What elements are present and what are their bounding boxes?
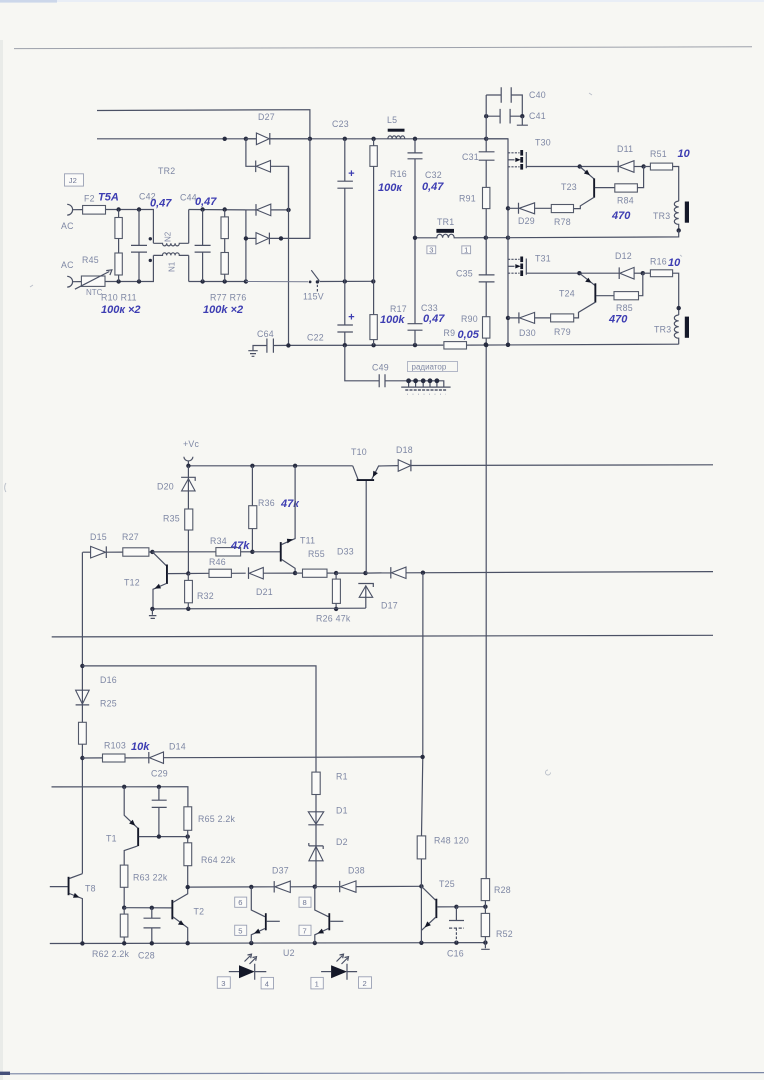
svg-text:C40: C40 [529, 90, 546, 100]
resistor R91 [459, 187, 490, 208]
wire long bus y636 [52, 635, 713, 637]
diode D16 [76, 675, 117, 705]
switch 115V [303, 270, 324, 301]
diode D30 [508, 312, 551, 338]
capacitor C28 [138, 908, 161, 961]
svg-text:0,47: 0,47 [150, 198, 172, 210]
svg-text:R62 2.2k: R62 2.2k [92, 949, 130, 959]
capacitor C31 [462, 152, 495, 162]
capacitor C40 [486, 87, 546, 116]
svg-text:D37: D37 [272, 866, 289, 876]
svg-text:470: 470 [608, 314, 628, 326]
wire top bus y110 [97, 110, 310, 139]
transformer TR3 lower [654, 315, 689, 344]
resistor R28 [481, 879, 511, 907]
svg-text:T10: T10 [351, 447, 367, 457]
svg-text:R36: R36 [258, 498, 275, 508]
junction dots on HV bus [223, 137, 489, 141]
svg-text:0,47: 0,47 [423, 313, 445, 325]
svg-text:R64 22k: R64 22k [201, 855, 236, 865]
wire AC top row [106, 207, 154, 243]
transistor T1 [106, 787, 190, 865]
svg-text:TR1: TR1 [437, 217, 454, 227]
resistor R10 [115, 210, 122, 239]
transistor T2 [124, 887, 204, 943]
wire R55 to D17 node [336, 571, 368, 575]
resistor R36 [249, 466, 275, 552]
svg-text:R34: R34 [210, 536, 227, 546]
svg-text:5: 5 [238, 926, 242, 935]
svg-text:радиатор: радиатор [412, 363, 447, 372]
transistor T11 [280, 466, 315, 576]
resistor R35 [163, 509, 193, 573]
svg-text:100к: 100к [378, 182, 403, 194]
resistor R79 [551, 314, 574, 337]
svg-text:D29: D29 [518, 216, 535, 226]
wire filtered top row [189, 207, 246, 211]
optocoupler U2 transistor A [235, 887, 280, 943]
svg-text:+: + [348, 168, 355, 180]
wire main right vertical lower [484, 343, 488, 879]
capacitor C35 [456, 269, 495, 282]
node AC 2 [61, 260, 74, 287]
transformer TR2 winding N1 [149, 253, 189, 272]
resistor R77 [221, 210, 228, 239]
pin 1 TR1 [462, 245, 471, 254]
resistor R48 [417, 836, 469, 943]
svg-text:J2: J2 [69, 176, 77, 185]
node AC 1 [61, 204, 74, 231]
svg-text:TR3: TR3 [653, 211, 670, 221]
wire T25 base node to R28 R52 [456, 905, 487, 909]
resistor R16 [370, 139, 407, 282]
capacitor C44 [180, 193, 211, 282]
junction dots negative bus right [484, 342, 511, 347]
svg-text:47к: 47к [280, 498, 300, 510]
svg-text:D30: D30 [519, 328, 536, 338]
wire bottom rail [50, 940, 488, 945]
svg-text:D21: D21 [256, 587, 273, 597]
svg-text:C23: C23 [332, 119, 349, 129]
transistor T25 [421, 879, 458, 930]
svg-text:U2: U2 [283, 948, 295, 958]
transistor T8 [50, 874, 96, 944]
svg-text:AC: AC [61, 260, 74, 270]
svg-text:D38: D38 [348, 866, 365, 876]
svg-text:0,47: 0,47 [422, 181, 444, 193]
capacitor C33 [408, 238, 438, 345]
svg-text:0,05: 0,05 [458, 329, 480, 341]
resistor R78 [551, 205, 573, 228]
svg-text:T8: T8 [85, 884, 96, 894]
capacitor C16 [447, 907, 464, 959]
resistor R85 [614, 273, 643, 313]
resistor R103 [82, 741, 148, 763]
svg-text:R10 R11: R10 R11 [101, 293, 137, 303]
svg-text:R48 120: R48 120 [434, 836, 469, 846]
svg-text:0,47: 0,47 [195, 196, 217, 208]
svg-text:R16: R16 [650, 257, 667, 267]
diode D11 [578, 144, 646, 172]
ground C64 [248, 346, 258, 357]
ground control rail [149, 609, 157, 619]
svg-text:R35: R35 [163, 514, 180, 524]
svg-text:2: 2 [363, 979, 367, 988]
svg-text:3: 3 [221, 979, 225, 988]
resistor R52 [481, 907, 513, 943]
resistor R25 [79, 699, 117, 745]
left page edge shade [0, 40, 3, 1080]
svg-text:7: 7 [303, 926, 307, 935]
zener D17 [358, 584, 398, 611]
wire HV bus y138.8 [97, 138, 508, 140]
svg-text:R1: R1 [336, 772, 348, 782]
svg-text:R78: R78 [554, 217, 571, 227]
svg-text:C33: C33 [421, 303, 438, 313]
resistor R46 [188, 557, 245, 577]
svg-text:D20: D20 [157, 482, 174, 492]
resistor R90 [461, 314, 490, 338]
pin 3 TR1 [427, 245, 436, 254]
svg-text:R27: R27 [122, 532, 139, 542]
diode D18 [396, 445, 413, 471]
junction R48 feed [420, 755, 424, 759]
diode D14 [149, 742, 423, 764]
svg-text:T12: T12 [124, 578, 140, 588]
diode D21 [249, 567, 296, 597]
inductor L5 [387, 115, 405, 139]
resistor R27 [122, 532, 155, 556]
svg-text:10: 10 [668, 257, 681, 269]
capacitor C32 [408, 139, 442, 238]
transformer TR1 [413, 217, 510, 240]
transistor T12 [124, 552, 188, 609]
svg-text:10k: 10k [131, 741, 150, 753]
capacitor C29 [152, 787, 167, 837]
svg-text:C49: C49 [372, 363, 389, 373]
resistor R16 output [643, 257, 681, 316]
zener D2 [309, 837, 348, 887]
wire negative bus y345 [286, 343, 443, 348]
optocoupler U2 transistor B [299, 887, 343, 943]
junction dots T30 branch [506, 206, 510, 347]
diode D33 [337, 547, 713, 579]
thermistor R45 NTC [73, 255, 112, 297]
page bottom rule [0, 1073, 764, 1074]
svg-text:R28: R28 [494, 885, 511, 895]
resistor R64 [184, 843, 236, 887]
fuse F2 [73, 194, 106, 215]
capacitor C41 [484, 109, 546, 124]
svg-text:R55: R55 [308, 549, 325, 559]
wire T30 branch [486, 139, 508, 345]
diode D12 [577, 251, 645, 279]
connector J2 [65, 174, 84, 186]
svg-text:D15: D15 [90, 532, 107, 542]
svg-text:C32: C32 [425, 170, 442, 180]
svg-text:T23: T23 [561, 182, 577, 192]
wire opto collector row [186, 885, 275, 890]
transistor T24 [559, 273, 614, 318]
svg-text:C22: C22 [307, 333, 324, 343]
diode D29 [508, 203, 551, 226]
pin 3 U2 [217, 977, 230, 989]
svg-text:C16: C16 [447, 949, 464, 959]
svg-text:N2: N2 [164, 231, 173, 242]
wire R48 upper vertical [422, 573, 423, 836]
svg-text:R79: R79 [554, 327, 571, 337]
svg-text:6: 6 [238, 898, 242, 907]
svg-text:R90: R90 [461, 314, 478, 324]
header rule [14, 47, 752, 49]
transistor T10 [351, 447, 398, 573]
resistor R1 [312, 772, 348, 812]
svg-text:T5A: T5A [98, 192, 119, 204]
svg-text:AC: AC [61, 221, 74, 231]
svg-text:T11: T11 [300, 536, 315, 546]
svg-text:TR2: TR2 [158, 166, 175, 176]
resistor R55 [295, 549, 338, 577]
svg-text:D2: D2 [336, 837, 348, 847]
node +Vc [183, 439, 200, 466]
wire base rail y787 [52, 785, 188, 807]
resistor R34 [210, 536, 255, 556]
wire AC bottom row left [105, 255, 153, 283]
wire main right vertical upper [485, 95, 487, 345]
svg-text:R85: R85 [616, 303, 633, 313]
svg-text:C28: C28 [138, 951, 155, 961]
svg-text:R9: R9 [444, 328, 456, 338]
svg-text:D11: D11 [617, 144, 633, 154]
transistor T23 [561, 167, 615, 209]
diode D38 [315, 866, 424, 893]
svg-text:D16: D16 [100, 675, 117, 685]
wire R34 to T11 base [252, 551, 280, 553]
capacitor C64 [257, 329, 288, 353]
svg-text:115V: 115V [303, 292, 324, 302]
capacitor C22 [307, 281, 353, 345]
svg-text:R52: R52 [496, 929, 513, 939]
wire control gnd rail [150, 607, 366, 612]
diode D37 [272, 866, 317, 893]
svg-text:R16: R16 [390, 169, 407, 179]
resistor R26 [332, 573, 340, 611]
svg-text:T25: T25 [439, 879, 455, 889]
mosfet T31 [508, 254, 579, 277]
capacitor C42 [131, 192, 156, 282]
svg-text:D18: D18 [396, 445, 413, 455]
svg-text:T1: T1 [106, 834, 117, 844]
led U2 B [321, 954, 357, 980]
diode D1 [308, 806, 347, 846]
svg-text:100k ×2: 100k ×2 [203, 304, 243, 316]
diode D15 [83, 532, 123, 558]
svg-text:D27: D27 [258, 112, 275, 122]
resistor R84 [615, 167, 644, 206]
wire Vc rail [186, 464, 353, 468]
pin 2 U2 [359, 977, 372, 989]
resistor R51 [644, 149, 679, 201]
capacitor C23 [332, 119, 353, 281]
svg-text:+Vc: +Vc [183, 439, 200, 449]
svg-text:C64: C64 [257, 329, 274, 339]
svg-text:47k: 47k [230, 540, 250, 552]
svg-text:+: + [348, 312, 355, 324]
svg-text:R65 2.2k: R65 2.2k [198, 814, 236, 824]
diode D27b [246, 139, 289, 210]
diode D27a [246, 133, 310, 145]
pin 1 U2 [311, 977, 323, 989]
transformer TR3 upper [508, 201, 689, 238]
resistor R32 [185, 574, 214, 609]
svg-text:L5: L5 [387, 115, 397, 125]
wire left feedback vertical [80, 552, 84, 873]
ground R52 [481, 943, 490, 950]
svg-text:100k: 100k [380, 314, 405, 326]
svg-text:T31: T31 [535, 254, 551, 264]
svg-text:R25: R25 [100, 699, 117, 709]
svg-text:C35: C35 [456, 269, 473, 279]
svg-text:D1: D1 [336, 806, 348, 816]
wire rectifier mid vertical [288, 166, 290, 345]
resistor R62 [120, 908, 128, 944]
resistor R11 [115, 239, 122, 282]
wire D18 output row [411, 464, 713, 467]
ground stub C41 [517, 116, 528, 125]
wire switch to caps row [320, 279, 376, 283]
capacitor C49 [345, 345, 409, 387]
resistor R76 [221, 239, 228, 282]
svg-text:N1: N1 [168, 261, 177, 272]
scan speckles [5, 93, 682, 775]
wire R1 feed line y666 [82, 666, 316, 772]
svg-text:C29: C29 [151, 769, 168, 779]
svg-text:C41: C41 [529, 111, 546, 121]
svg-text:D14: D14 [169, 742, 186, 752]
zener D20 [157, 466, 195, 509]
resistor R17 [370, 281, 407, 345]
svg-text:D33: D33 [337, 547, 354, 557]
svg-text:10: 10 [678, 148, 691, 160]
svg-text:R51: R51 [650, 149, 667, 159]
resistor R63 [120, 865, 168, 910]
svg-text:D17: D17 [381, 601, 398, 611]
page top edge tint [0, 0, 764, 2]
resistor R9 [444, 328, 679, 349]
svg-text:D12: D12 [615, 251, 632, 261]
svg-text:R91: R91 [459, 194, 476, 204]
wire R27 to R34 [152, 551, 216, 553]
mosfet T30 [508, 138, 580, 170]
svg-text:T24: T24 [559, 289, 575, 299]
svg-text:R103: R103 [104, 741, 126, 751]
svg-text:8: 8 [303, 898, 307, 907]
heatsink радиатор [401, 362, 457, 395]
svg-text:R84: R84 [617, 196, 634, 206]
svg-text:T30: T30 [535, 138, 551, 148]
wire TR2 right links [188, 210, 190, 282]
transformer TR2 winding N2 [149, 231, 189, 246]
svg-text:R17: R17 [390, 304, 407, 314]
svg-text:R46: R46 [209, 557, 226, 567]
svg-text:C31: C31 [462, 152, 479, 162]
svg-text:1: 1 [464, 245, 468, 254]
pin 4 U2 [261, 977, 273, 989]
svg-text:100к ×2: 100к ×2 [101, 304, 141, 316]
svg-text:3: 3 [429, 245, 433, 254]
diode D27c [246, 204, 291, 216]
svg-text:R26 47k: R26 47k [316, 614, 351, 624]
diode D27d [244, 139, 310, 282]
svg-text:R63 22k: R63 22k [133, 873, 168, 883]
svg-text:F2: F2 [84, 194, 95, 204]
wire filtered bottom row [189, 279, 248, 283]
junction T12 base node [186, 571, 190, 575]
svg-text:4: 4 [265, 979, 269, 988]
svg-text:R45: R45 [82, 255, 99, 265]
led U2 A [229, 954, 266, 980]
svg-text:R77 R76: R77 R76 [210, 293, 246, 303]
wire AC return row [246, 281, 308, 283]
svg-text:R32: R32 [197, 591, 214, 601]
svg-text:T2: T2 [194, 907, 205, 917]
svg-text:1: 1 [315, 979, 319, 988]
svg-text:TR3: TR3 [654, 325, 671, 335]
resistor R65 [184, 807, 236, 843]
svg-text:470: 470 [611, 210, 631, 222]
